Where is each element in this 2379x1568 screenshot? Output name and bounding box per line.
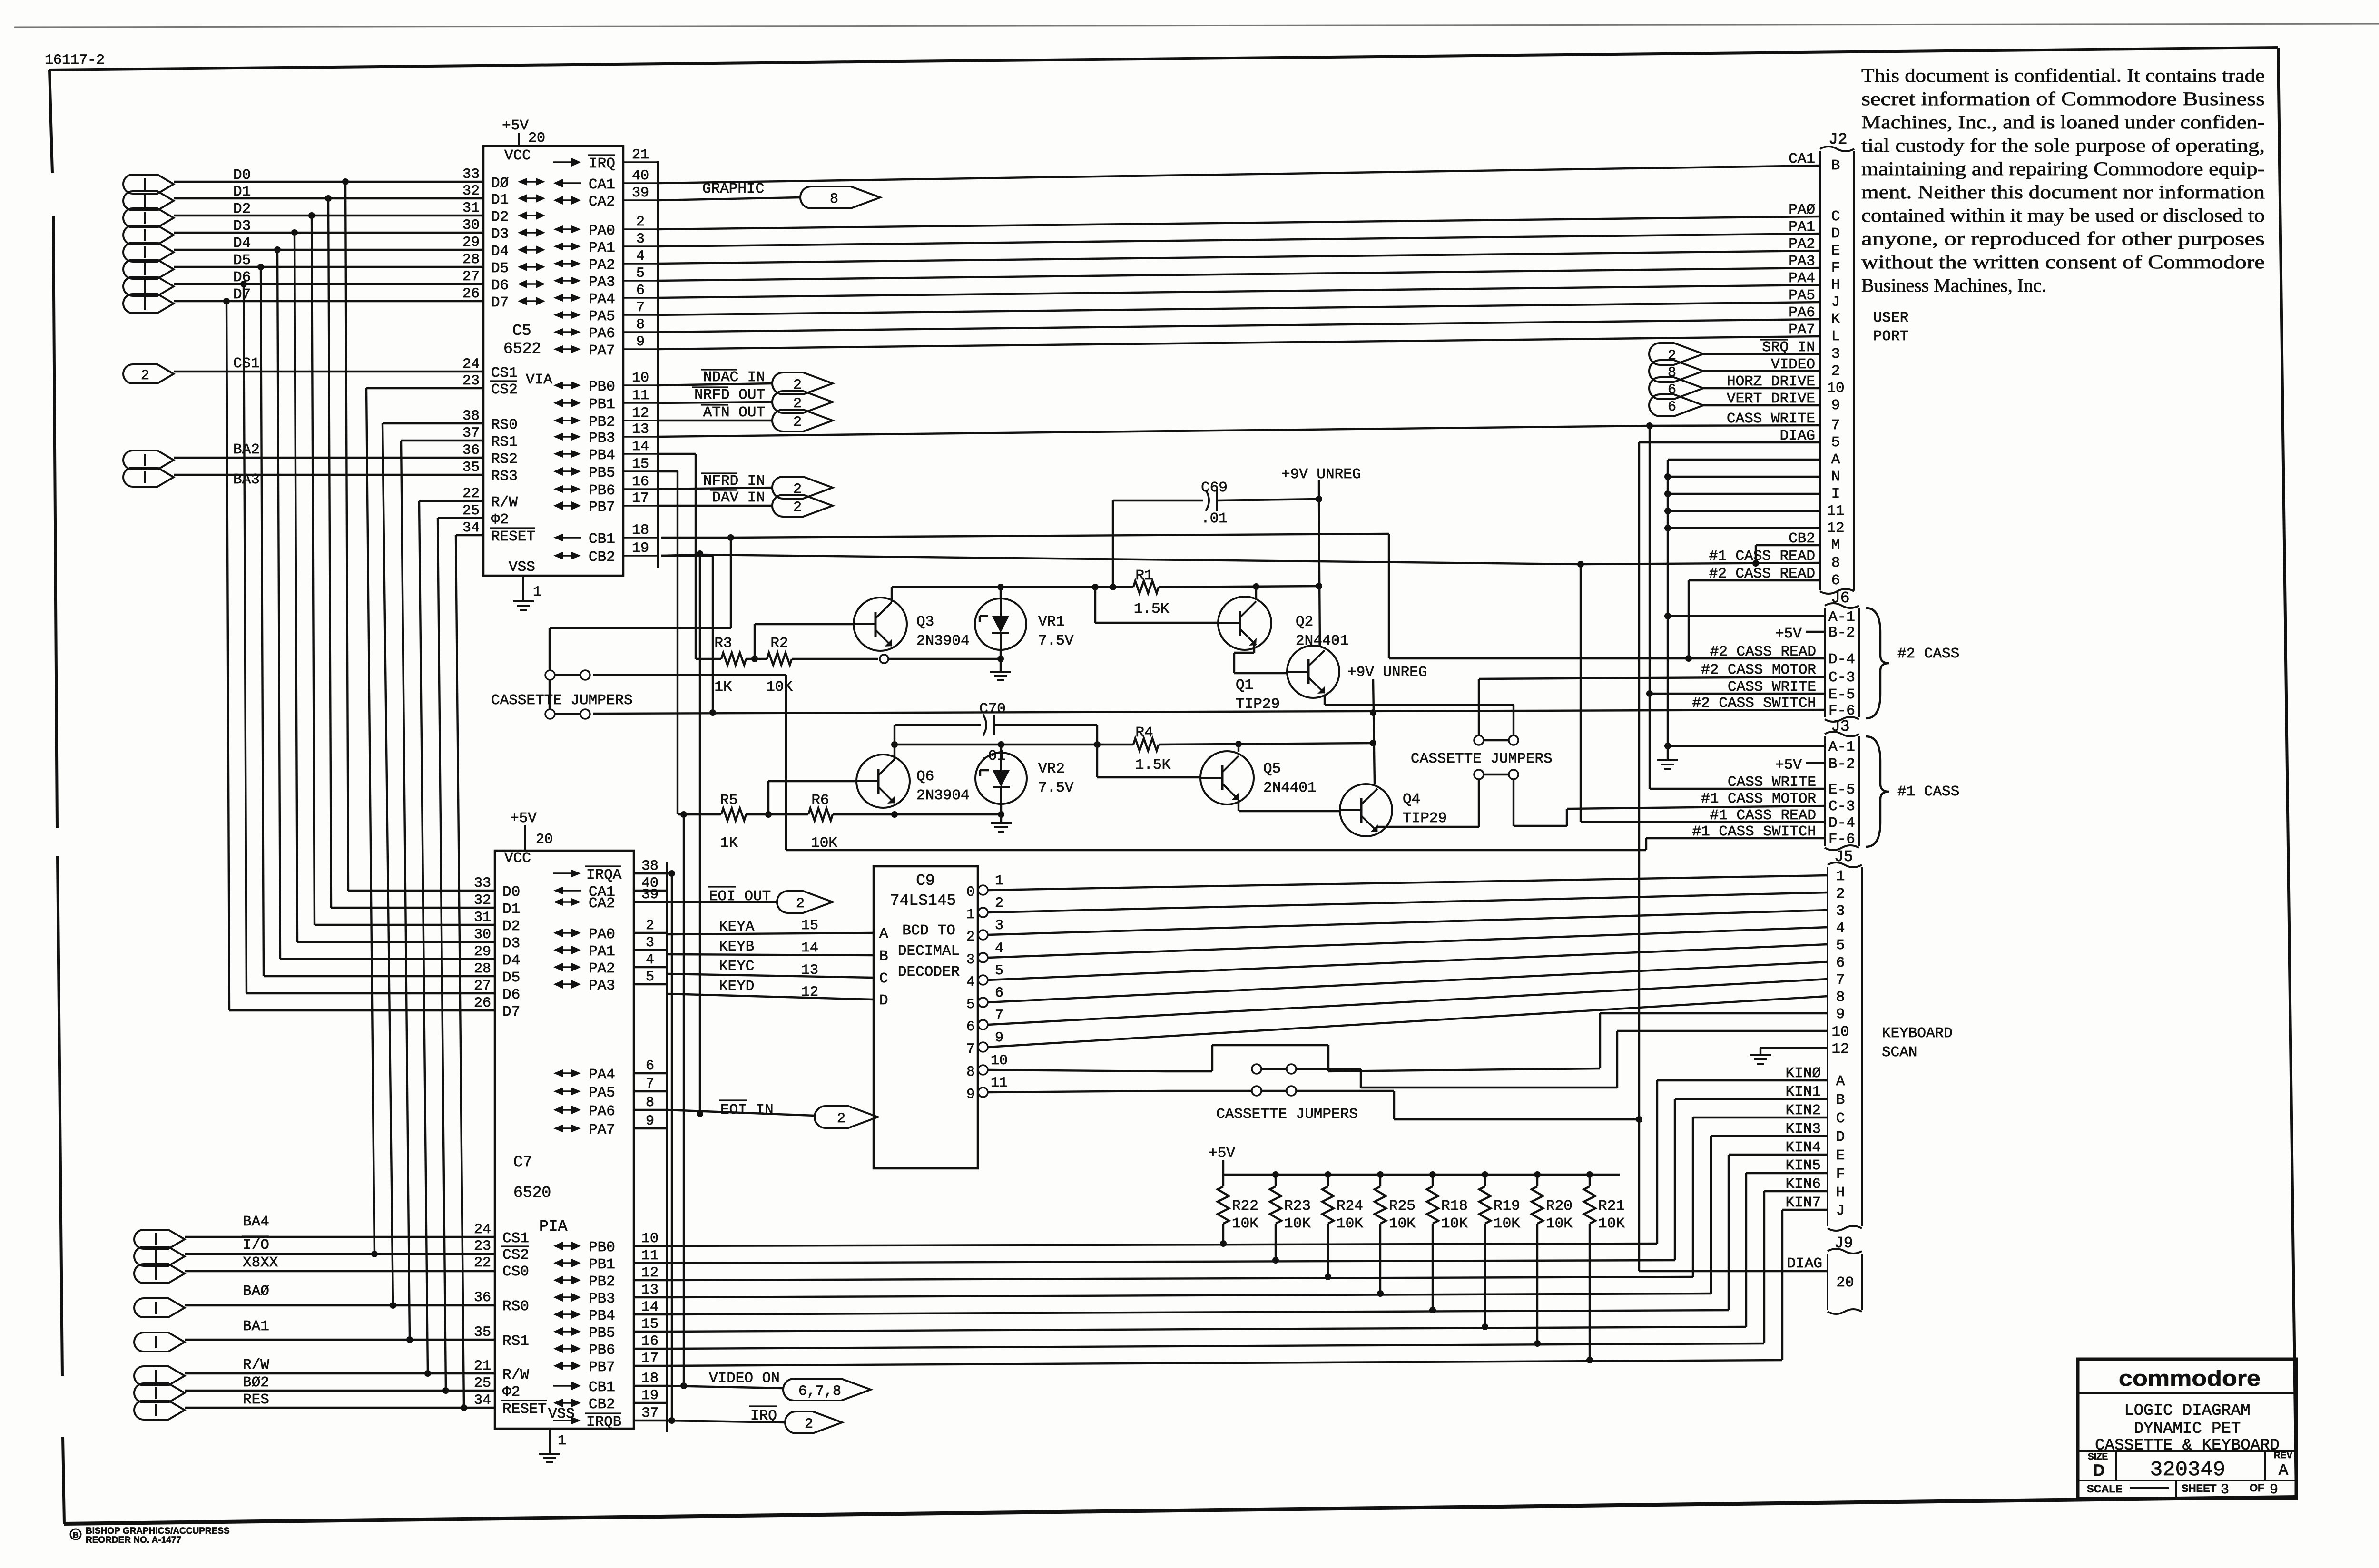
svg-text:R2: R2 [770,635,788,652]
svg-text:7.5V: 7.5V [1038,780,1074,796]
junction BAØ riser tap [390,1302,396,1309]
wire Q3 emitter to VR1 bottom [888,658,1001,660]
junction R/W riser tap [424,1370,431,1377]
svg-text:3: 3 [646,935,654,951]
wire D5 into C7 [264,975,495,977]
transistor Q6 2N3904 [856,755,970,808]
C5 pin 33 DØ [462,167,509,192]
svg-text:6522: 6522 [503,340,541,358]
junction R23 at KIN1 [1272,1257,1279,1264]
wire BA1 riser to C5 [401,441,410,1340]
svg-text:2N3904: 2N3904 [916,633,970,649]
wire R2 to Q3 emitter [792,658,878,660]
connector I/O input arrow [134,1236,269,1266]
C5 pin 22 R/W [462,486,518,511]
svg-text:10K: 10K [766,679,793,696]
svg-text:PA2: PA2 [589,960,615,977]
wire PA7 net C5 to J2 [658,336,1820,349]
svg-text:2N3904: 2N3904 [916,787,970,804]
svg-text:PA1: PA1 [589,240,615,256]
C7 pin 36 RS0 [474,1290,529,1315]
C5 pin 15 PB5 [553,456,658,481]
C7 pin 10 PB0 [553,1231,667,1256]
svg-text:J6: J6 [1831,589,1850,607]
svg-text:9: 9 [636,334,645,350]
wire KIN5 riser [1745,1173,1747,1327]
svg-text:SHEET: SHEET [2182,1482,2217,1494]
C5 pin 34 RESET [462,520,535,545]
svg-text:C5: C5 [512,322,531,340]
C7 pin 23 CS2 [474,1238,529,1264]
svg-text:6: 6 [636,283,645,299]
svg-text:R24: R24 [1337,1198,1363,1215]
svg-text:9: 9 [2270,1482,2278,1498]
svg-text:9: 9 [1831,397,1840,414]
C5 pin 13 PB3 [553,421,658,447]
junction +5V rail R24 [1325,1171,1331,1178]
svg-text:CS1: CS1 [491,365,518,382]
C5 pin 31 D2 [462,200,509,225]
svg-text:DECIMAL: DECIMAL [898,943,960,960]
C5 pin 26 D7 [462,286,509,311]
svg-text:#1 CASS: #1 CASS [1897,784,1959,800]
svg-text:CA2: CA2 [589,194,615,210]
svg-text:D1: D1 [491,192,509,208]
svg-text:contained within it may be use: contained within it may be used or discl… [1861,205,2265,226]
wire #1 cass motor from jumper [1513,779,1514,826]
svg-text:8: 8 [830,191,838,207]
svg-text:20: 20 [528,130,545,147]
wire D2 bus riser [312,216,315,925]
svg-text:1: 1 [558,1433,566,1449]
open junction at Q3 emitter [880,655,888,663]
wire R1 row left segment [892,586,1113,588]
wire D6 bus riser [244,284,246,993]
svg-text:PB6: PB6 [589,482,615,499]
svg-text:PA7: PA7 [589,1122,615,1138]
connector D1 input arrow [123,184,251,210]
svg-text:RS1: RS1 [502,1333,529,1350]
C7 pin 34 RESET [474,1392,547,1418]
jumper pair upper left [545,670,590,680]
svg-text:D: D [879,992,888,1009]
junction Q2 collector [1253,583,1259,590]
wire KEYD C7 to C9 [667,994,874,1000]
svg-text:7: 7 [995,1008,1003,1024]
connector D4 input arrow [123,235,251,262]
wire Q2 emitter to Q1 base [1253,643,1255,653]
svg-text:KEYB: KEYB [719,939,754,955]
wire NFRD IN [658,488,772,489]
svg-text:A: A [2279,1462,2289,1480]
svg-text:10K: 10K [811,835,837,852]
net label VERT DRIVE at J2 [1727,391,1815,407]
connector BØ2 input arrow [134,1374,269,1402]
wire PA3 net C5 to J2 [658,268,1820,281]
svg-text:18: 18 [641,1371,659,1387]
junction +5V rail R23 [1272,1171,1279,1178]
svg-text:4: 4 [646,952,654,968]
junction I/O riser tap [371,1251,378,1257]
C5 D5 internal arrow [518,263,545,271]
wire X8XX to C7 [185,1270,495,1272]
arrow VIDEO ON [709,1370,871,1401]
wire ground bus to J2 [1668,493,1820,495]
wire Q6 collector riser [894,725,895,759]
wire D1 into C7 [331,907,495,909]
C7 pin 2 PA0 [553,918,667,943]
junction VR2 top [998,741,1004,748]
svg-text:R/W: R/W [491,494,518,511]
junction Q2 base dropper [1092,584,1099,590]
wire D2 to C5 pin [174,215,483,216]
svg-text:J2: J2 [1828,131,1848,148]
C5 pin 2 PA0 [553,214,658,239]
svg-text:10K: 10K [1337,1215,1363,1232]
net label PA6 at J2 [1789,304,1815,321]
net label PA1 at J2 [1789,219,1815,235]
svg-text:B-2: B-2 [1828,756,1855,773]
wire BA3 to C5 RS3 [174,474,483,476]
junction CASS WRITE at J6 [1646,690,1653,697]
wire J2 A row [1668,459,1820,461]
junction ground at J6 A-1 [1664,613,1671,619]
junction ground at J3 A-1 [1664,743,1671,749]
svg-text:11: 11 [641,1248,659,1264]
svg-text:7: 7 [966,1041,975,1058]
svg-text:10K: 10K [1232,1215,1258,1232]
svg-text:DAV IN: DAV IN [712,490,765,506]
svg-text:3: 3 [1831,346,1840,363]
svg-text:CA1: CA1 [589,176,615,193]
page border right [2278,48,2296,1497]
svg-text:+5V: +5V [1209,1145,1235,1162]
svg-text:L: L [1831,328,1840,345]
wire CB2 user port riser [1755,545,1757,563]
svg-text:20: 20 [1836,1274,1854,1291]
svg-text:9: 9 [995,1030,1003,1046]
wire VR2 top riser [1000,745,1002,753]
transistor Q5 2N4401 [1200,751,1317,804]
transistor Q1 TIP29 [1236,646,1339,713]
zener diode VR2 7.5V [975,753,1074,804]
wire IRQA riser to IRQ net [667,872,672,874]
svg-text:.01: .01 [1201,510,1228,527]
C7 pin 5 PA3 [553,969,667,994]
wire Q4 emitter [1376,827,1377,828]
svg-text:CB1: CB1 [589,1379,615,1396]
svg-text:10K: 10K [1389,1215,1416,1232]
wire #1 cass read riser down to EOI IN row [699,554,701,1114]
svg-text:CASSETTE & KEYBOARD: CASSETTE & KEYBOARD [2095,1437,2280,1455]
svg-text:R3: R3 [714,635,732,652]
wire RES to C7 [185,1407,495,1409]
wire BA1 to C7 [185,1339,495,1341]
arrow IRQ [749,1406,842,1433]
svg-text:2: 2 [1836,886,1845,902]
wire C9 output 3 to J5 row 4 [988,927,1828,958]
wire Q5 emitter to Q4 base [1238,800,1239,811]
paper edge lines [14,24,2379,27]
svg-text:CASS WRITE: CASS WRITE [1728,774,1816,791]
svg-text:D7: D7 [502,1004,520,1020]
svg-text:14: 14 [801,940,818,956]
resistor R24 10K [1322,1175,1363,1277]
transistor Q4 TIP29 [1340,784,1447,836]
wire C9 output 8 to J5 row 9 via bridge [988,1070,1166,1071]
C5 pin 37 RS1 [462,425,518,451]
wire KIN3 to J5 [1711,1135,1828,1137]
junction D1 bus tap [325,195,332,202]
svg-text:CB2: CB2 [589,549,615,566]
junction D0 bus tap [342,178,349,185]
C7 pin 35 RS1 [474,1324,529,1350]
svg-text:PB0: PB0 [589,1239,615,1256]
wire VR2 bottom riser [1000,804,1002,814]
svg-text:14: 14 [632,439,649,455]
wire #1 cass switch from jumper [593,674,786,676]
svg-text:#2 CASS READ: #2 CASS READ [1710,644,1816,660]
svg-text:34: 34 [462,520,480,536]
svg-text:11: 11 [632,388,649,404]
junction +5V rail R18 [1429,1171,1436,1178]
wire R4 to Q5 collector node [1159,743,1373,745]
wire ground bus vertical [1667,460,1669,746]
svg-text:commodore: commodore [2119,1366,2261,1391]
svg-text:1: 1 [966,907,975,923]
wire PA0 net C5 to J2 [658,216,1820,229]
svg-text:VIA: VIA [526,372,552,388]
arrow NRFD OUT [692,387,833,413]
svg-text:9: 9 [1836,1006,1845,1023]
wire R/W to C7 [185,1372,495,1374]
junction D7 bus tap [223,298,230,304]
svg-text:5: 5 [966,997,975,1013]
svg-text:A-1: A-1 [1828,609,1855,626]
svg-text:CS1: CS1 [502,1230,529,1247]
svg-text:RESET: RESET [491,529,535,545]
svg-text:1: 1 [533,584,541,600]
wire #2 cass read riser to J2 pin 6 [1688,580,1690,658]
svg-text:C70: C70 [979,701,1006,717]
wire NDAC IN [658,383,772,385]
svg-text:D2: D2 [491,209,509,225]
wire KIN6 riser [1763,1191,1765,1343]
resistor R23 10K [1270,1175,1311,1260]
junction #1 cass read risers [697,550,703,557]
wire C9 output 4 to J5 row 5 [988,944,1828,980]
resistor R19 10K [1479,1175,1520,1327]
svg-text:1K: 1K [714,679,732,696]
svg-text:RS3: RS3 [491,468,518,485]
C5 pin 40 CA1 [553,168,658,193]
C9 output 0 pin 1 [966,873,1003,901]
wire PA5 net C5 to J2 [658,302,1820,315]
junction +5V rail R19 [1482,1171,1488,1178]
connector D5 input arrow [123,252,251,279]
svg-text:8: 8 [1836,989,1845,1006]
svg-text:6: 6 [646,1058,654,1074]
svg-text:15: 15 [641,1316,659,1333]
ground symbol near J3 [1667,746,1669,760]
junction BØ2 riser tap [442,1387,449,1394]
wire base node riser to Q3 base [754,624,756,659]
brace #1 CASS [1866,736,1959,847]
C9 output 8 pin 10 [966,1053,1008,1080]
C7 pin 17 PB7 [553,1351,667,1376]
svg-text:2N4401: 2N4401 [1263,780,1317,796]
svg-text:A-1: A-1 [1828,739,1855,755]
wire KIN1 to J5 [1675,1098,1828,1100]
junction +9V unreg top [1316,496,1322,502]
wire D5 bus riser [261,267,264,976]
junction CB2 at switch line [709,709,716,716]
wire arrow to J2 [1703,370,1820,372]
C7 pin 31 D2 [474,910,520,935]
connector R/W input arrow [134,1357,269,1385]
svg-text:12: 12 [641,1265,659,1281]
wire CB1 to jumper riser [661,537,731,539]
net label #1 CASS READ at J2 [1709,548,1815,565]
svg-text:RES: RES [243,1392,269,1408]
C5 pin 24 CS1 [462,356,518,382]
svg-text:21: 21 [474,1358,491,1374]
svg-text:DØ: DØ [491,175,509,192]
svg-text:5: 5 [995,963,1003,979]
wire D3 bus riser [295,233,297,942]
svg-text:OF: OF [2250,1482,2264,1494]
svg-text:BØ2: BØ2 [243,1374,269,1391]
wire Q1 emitter [1324,696,1326,705]
svg-text:10: 10 [991,1053,1008,1069]
wire KIN5 to J5 [1746,1172,1828,1174]
wire PA2 net C5 to J2 [658,251,1820,264]
wire KIN3 from C7 PB3 [667,1294,1711,1297]
svg-text:DYNAMIC PET: DYNAMIC PET [2134,1420,2241,1438]
C7 pin 33 D0 [474,875,520,901]
wire D4 into C7 [280,958,495,960]
junction ground bus [1664,525,1671,531]
connector J2 strip [1820,131,1854,594]
svg-text:F-6: F-6 [1828,831,1855,848]
C9 input A pin 15 [801,918,888,942]
jumper pair right upper [1474,735,1518,745]
C7 pin 22 CS0 [474,1255,529,1280]
wire Q6 emitter to VR2 bottom [895,813,1001,815]
svg-text:PB5: PB5 [589,1325,615,1342]
wire KEYC C7 to C9 [667,974,874,978]
wire C9 output 1 to J5 row 2 [988,892,1828,912]
svg-text:R1: R1 [1135,568,1153,584]
arrow ATN OUT [701,404,833,431]
svg-text:VR1: VR1 [1038,614,1065,630]
connector J9 strip [1828,1235,1862,1314]
svg-text:2: 2 [636,214,645,230]
C7 pin 4 PA2 [553,952,667,977]
connector J5 strip [1828,848,1862,1231]
svg-text:D: D [1836,1129,1845,1146]
svg-text:VR2: VR2 [1038,761,1065,777]
svg-text:PB4: PB4 [589,447,615,464]
svg-text:C: C [1831,208,1840,225]
svg-text:A: A [1831,451,1840,468]
svg-text:C: C [879,970,888,987]
svg-text:BCD TO: BCD TO [902,922,955,939]
svg-text:DECODER: DECODER [898,964,960,980]
svg-text:anyone, or reproduced for othe: anyone, or reproduced for other purposes [1861,228,2265,249]
svg-text:34: 34 [474,1392,491,1409]
svg-text:RS0: RS0 [491,417,518,433]
page border top [49,48,2278,70]
C7 pin 38 IRQA [553,858,667,883]
C9 output 2 pin 3 [966,918,1003,945]
svg-text:27: 27 [474,978,491,994]
svg-text:24: 24 [474,1222,491,1238]
svg-text:18: 18 [632,522,649,539]
svg-text:CB1: CB1 [589,531,615,548]
resistor R21 10K [1584,1175,1625,1360]
wire D4 to C5 pin [174,249,483,251]
junction IRQ riser [668,1417,675,1424]
svg-text:R/W: R/W [243,1357,269,1373]
svg-text:11: 11 [1827,503,1844,519]
C5 pin 27 D6 [462,269,509,294]
svg-text:1: 1 [1836,868,1845,885]
wire PA6 net C5 to J2 [658,319,1820,332]
svg-text:16: 16 [632,474,649,490]
svg-text:R23: R23 [1284,1198,1311,1215]
confidentiality notice paragraph [1861,65,2265,296]
junction BA1 riser tap [406,1336,413,1343]
wire KEYB C7 to C9 [667,954,874,955]
wire KIN7 to J5 [1782,1209,1828,1211]
junction R20 at KIN6 [1534,1340,1541,1347]
svg-text:D7: D7 [491,294,509,311]
C7 pin 39 CA2 [553,887,667,912]
C7 pin 16 PB6 [553,1333,667,1359]
wire jumper to J5 row 10 [1296,1068,1361,1070]
svg-text:A: A [879,926,888,942]
C9 input C pin 13 [801,962,888,987]
svg-text:6: 6 [966,1019,975,1035]
wire KIN5 from C7 PB5 [667,1327,1746,1332]
svg-text:CASSETTE JUMPERS: CASSETTE JUMPERS [1411,751,1553,767]
wire NRFD OUT [658,402,772,403]
wire CB1 to VIDEO ON [667,1386,783,1388]
wire D7 bus riser [226,301,229,1010]
junction Q5 collector [1235,741,1242,747]
svg-text:Q3: Q3 [916,614,934,630]
svg-text:11: 11 [991,1075,1008,1091]
svg-text:CASS WRITE: CASS WRITE [1728,679,1816,696]
wire BØ2 to C7 [185,1390,495,1392]
svg-text:J: J [1836,1203,1845,1219]
jumper pair bottom middle lower [1252,1086,1296,1096]
svg-text:5: 5 [646,969,654,985]
svg-text:Q4: Q4 [1403,791,1420,808]
arrow sheet-ref 6 into J2 row [1649,394,1703,416]
svg-text:PA3: PA3 [589,274,615,291]
svg-text:I: I [1831,486,1840,502]
svg-text:13: 13 [632,421,649,438]
resistor R3 [696,635,746,696]
junction D3 bus tap [291,229,298,236]
net label CA1 at J2 [1789,151,1815,167]
wire arrow to J2 [1703,387,1820,389]
net label CASS WRITE at J2 [1727,411,1815,427]
page border bottom [64,1497,2296,1524]
wire #2 cass switch long line [593,710,1825,714]
